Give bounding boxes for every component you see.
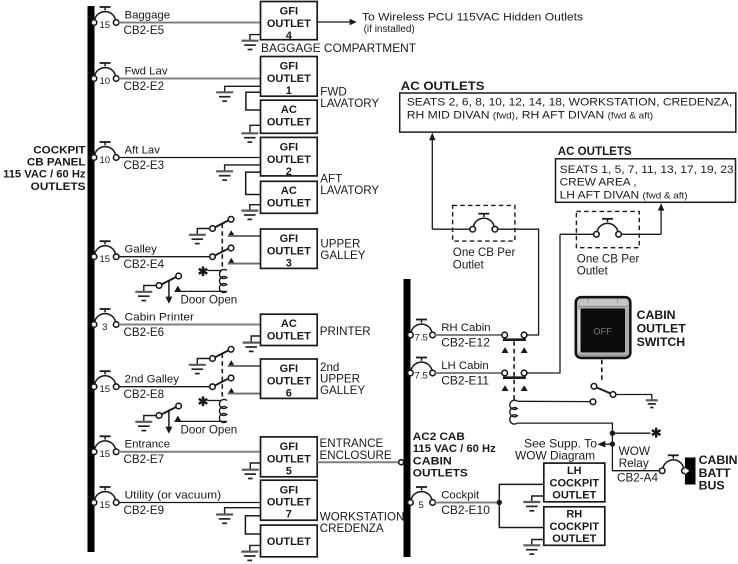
door actuator arrow xyxy=(168,281,170,298)
svg-text:CB2-E2: CB2-E2 xyxy=(124,80,165,93)
wire dashed CB box 1 to AC outlets seats box (arrow up) xyxy=(431,139,433,229)
wire GFI outlet 2 to AC outlet aft lav xyxy=(246,172,261,194)
svg-text:SWITCH: SWITCH xyxy=(637,335,686,349)
svg-text:15: 15 xyxy=(99,254,110,265)
svg-text:To Wireless PCU 115VAC Hidden: To Wireless PCU 115VAC Hidden Outlets xyxy=(362,12,583,24)
svg-text:OUTLET: OUTLET xyxy=(552,533,596,545)
svg-text:GFI: GFI xyxy=(280,484,298,496)
svg-text:COCKPIT: COCKPIT xyxy=(550,477,600,489)
svg-text:OUTLET: OUTLET xyxy=(552,489,596,501)
ground stub AC outlet printer xyxy=(251,336,260,342)
svg-text:15: 15 xyxy=(99,20,110,31)
wire GFI outlet 7 to outlet workstation xyxy=(245,516,260,534)
circuit breaker CB2-E11 (7.5A) xyxy=(411,362,432,371)
svg-text:GFI: GFI xyxy=(280,61,298,73)
ground AC outlet aft lav xyxy=(241,210,258,212)
ground stub LH cockpit outlet xyxy=(532,496,544,502)
wire coil to WOW relay node xyxy=(517,423,612,444)
door switch blade xyxy=(157,275,181,287)
ground stub AC outlet fwd lav xyxy=(250,125,261,133)
mechanical link dashed cabin relay xyxy=(513,341,515,400)
svg-text:OUTLET: OUTLET xyxy=(267,246,311,258)
wire CB2-E12 to relay contact RH xyxy=(435,334,502,336)
svg-text:LH Cabin: LH Cabin xyxy=(441,360,489,372)
ground stub GFI outlet 5 xyxy=(250,463,260,469)
node junction cockpit outlets xyxy=(497,500,502,505)
svg-text:ENCLOSURE: ENCLOSURE xyxy=(320,449,392,462)
svg-text:CB2-E12: CB2-E12 xyxy=(441,335,490,349)
svg-text:OUTLET: OUTLET xyxy=(267,154,311,166)
wire CB2-E5 to GFI outlet 4 xyxy=(119,22,261,24)
svg-text:GALLEY: GALLEY xyxy=(320,384,365,397)
wire junction to asterisk xyxy=(612,432,650,434)
relay coil cabin outlet relay xyxy=(510,400,518,424)
svg-text:OUTLETS: OUTLETS xyxy=(413,468,468,480)
circuit breaker CB2-E4 (15A) xyxy=(95,246,116,255)
arrow see supp to WOW diagram xyxy=(605,443,612,445)
svg-text:5: 5 xyxy=(286,465,292,477)
node junction WOW 2 xyxy=(610,441,615,446)
outlet box GFI OUTLET 4 xyxy=(261,2,318,40)
wire upper contact to GFI outlet 3 xyxy=(228,235,261,237)
wire dashed CB box 2 to AC outlets seats box 2 (arrow up) xyxy=(622,233,662,235)
wire CB2-E4 to galley relay contact xyxy=(119,256,210,258)
asterisk note coil xyxy=(202,396,205,406)
relay contact lower galley 6 xyxy=(210,376,234,388)
wire GFI outlet 4 to wireless PCU arrow xyxy=(317,21,350,23)
circuit breaker CB2-E12 (7.5A) xyxy=(411,324,432,333)
wire CB2-E8 to 2nd galley relay contact xyxy=(119,386,210,388)
node junction WOW 1 xyxy=(610,431,615,436)
asterisk note WOW xyxy=(655,428,657,438)
bus stub CABIN BATT BUS xyxy=(685,458,696,485)
wire GFI outlet 1 to AC outlet fwd lav xyxy=(246,92,261,110)
svg-text:CB2-E9: CB2-E9 xyxy=(124,504,165,517)
relay contact RH cabin xyxy=(503,338,526,341)
svg-text:OUTLET: OUTLET xyxy=(267,330,311,342)
bus bar COCKPIT CB PANEL 115VAC bus xyxy=(88,6,95,552)
contact terminal triangle lower xyxy=(228,258,235,264)
svg-text:GFI: GFI xyxy=(280,142,298,154)
ground AC outlet printer xyxy=(243,342,260,344)
svg-text:OFF: OFF xyxy=(593,327,612,337)
svg-text:OUTLET: OUTLET xyxy=(267,497,311,509)
door switch terminal triangle xyxy=(175,286,182,292)
svg-text:CB2-E10: CB2-E10 xyxy=(441,503,490,517)
svg-text:AC: AC xyxy=(281,185,297,197)
wire CB2-E9 to GFI outlet 7 xyxy=(119,502,261,504)
wire lower contact to GFI outlet 6 xyxy=(228,393,261,395)
svg-text:COCKPIT: COCKPIT xyxy=(33,144,86,156)
outlet box GFI OUTLET 2 xyxy=(261,137,318,176)
svg-text:Entrance: Entrance xyxy=(125,439,171,451)
outlet box AC OUTLET fwd lav xyxy=(261,100,318,133)
arrowhead to wireless PCU xyxy=(350,19,357,26)
dashed box one CB per outlet 2 xyxy=(576,211,639,247)
relay contact upper galley 6 xyxy=(210,348,234,360)
ground GFI outlet 4 xyxy=(242,40,259,42)
ground GFI outlet 2 xyxy=(216,170,233,172)
mechanical link dashed xyxy=(221,354,223,401)
svg-text:LH: LH xyxy=(567,465,582,477)
circuit breaker CB2-E2 (10A) xyxy=(95,68,116,77)
svg-text:CREW AREA ,: CREW AREA , xyxy=(560,177,637,189)
wire CB2-E11 to relay contact LH xyxy=(435,372,502,374)
svg-text:GFI: GFI xyxy=(280,6,298,18)
ground stub GFI outlet 1 xyxy=(225,86,261,92)
svg-text:GALLEY: GALLEY xyxy=(320,249,365,262)
outlet box OUTLET workstation xyxy=(261,525,318,557)
door switch blade xyxy=(157,405,181,417)
svg-text:CB2-E3: CB2-E3 xyxy=(124,159,165,172)
wire door switch to ground xyxy=(144,416,157,422)
outlet box GFI OUTLET 6 xyxy=(261,359,318,398)
ground door switch xyxy=(135,421,152,423)
svg-text:Outlet: Outlet xyxy=(453,258,485,271)
svg-text:10: 10 xyxy=(99,76,110,87)
svg-text:Cockpit: Cockpit xyxy=(441,489,480,501)
svg-text:One CB Per: One CB Per xyxy=(577,252,640,265)
svg-text:PRINTER: PRINTER xyxy=(320,325,371,338)
svg-text:Utility (or vacuum): Utility (or vacuum) xyxy=(125,489,222,501)
svg-text:15: 15 xyxy=(99,384,110,395)
svg-text:BAGGAGE COMPARTMENT: BAGGAGE COMPARTMENT xyxy=(261,42,416,55)
ground GFI outlet 1 xyxy=(216,91,233,93)
relay coil door relay xyxy=(219,399,227,422)
svg-text:CABIN: CABIN xyxy=(413,455,452,467)
ground stub RH cockpit outlet xyxy=(532,540,544,546)
circuit breaker one-CB-per-outlet 1 xyxy=(473,218,494,227)
svg-text:GFI: GFI xyxy=(280,233,298,245)
wire junction to LH and RH cockpit outlets xyxy=(499,484,544,527)
svg-text:7.5: 7.5 xyxy=(415,332,428,343)
ground upper contact xyxy=(189,234,206,236)
svg-text:OUTLETS: OUTLETS xyxy=(31,181,86,193)
ground AC outlet fwd lav xyxy=(241,132,258,134)
svg-text:OUTLET: OUTLET xyxy=(267,536,311,548)
svg-text:Door Open: Door Open xyxy=(181,293,238,306)
ground stub AC outlet aft lav xyxy=(250,205,261,211)
svg-text:CB2-E11: CB2-E11 xyxy=(441,373,489,387)
circuit breaker CB2-E8 (15A) xyxy=(95,376,116,385)
ground upper contact xyxy=(189,364,206,366)
ground stub GFI outlet 4 xyxy=(250,35,261,41)
wire GFI outlet 5 to AC2 CAB bus xyxy=(317,461,399,463)
wire coil to switch contact xyxy=(517,400,590,402)
bus bar AC2 CAB 115VAC cabin outlets xyxy=(404,279,411,557)
svg-text:One CB Per: One CB Per xyxy=(453,246,516,259)
svg-text:Fwd Lav: Fwd Lav xyxy=(125,65,168,77)
wire upper contact to ground xyxy=(197,229,210,235)
door switch terminal triangle xyxy=(175,416,182,422)
svg-text:7: 7 xyxy=(286,509,292,521)
outlet box RH COCKPIT OUTLET xyxy=(544,507,605,546)
circuit breaker CB2-E5 (15A) xyxy=(95,12,116,21)
outlet box GFI OUTLET 7 xyxy=(261,480,318,520)
svg-text:15: 15 xyxy=(99,449,110,460)
svg-text:OUTLET: OUTLET xyxy=(267,116,311,128)
svg-text:Galley: Galley xyxy=(125,244,158,256)
circuit breaker CB2-E9 (15A) xyxy=(95,492,116,501)
wire CB2-E6 to AC outlet printer xyxy=(119,324,261,326)
node terminal at AC2 CAB bus xyxy=(399,460,404,465)
svg-text:GFI: GFI xyxy=(280,441,298,453)
relay contact LH cabin xyxy=(503,376,526,379)
wire lower contact to GFI outlet 3 xyxy=(228,263,261,265)
wire door switch to ground xyxy=(144,286,157,292)
svg-text:115 VAC / 60 Hz: 115 VAC / 60 Hz xyxy=(413,443,496,455)
svg-text:AC: AC xyxy=(281,318,297,330)
wire into dashed CB box 1 xyxy=(432,228,470,230)
relay contact upper galley 3 xyxy=(210,218,234,230)
svg-text:CREDENZA: CREDENZA xyxy=(320,522,384,535)
circuit breaker CB2-E7 (15A) xyxy=(95,441,116,450)
outlet box LH COCKPIT OUTLET xyxy=(544,463,605,502)
door actuator arrow xyxy=(168,411,170,428)
ground GFI outlet 5 xyxy=(242,469,259,471)
circuit breaker CB2-E10 (5A) xyxy=(411,492,432,501)
svg-text:(if installed): (if installed) xyxy=(364,24,415,35)
ground stub outlet workstation xyxy=(250,545,261,551)
relay coil door relay xyxy=(219,269,227,292)
svg-text:OUTLET: OUTLET xyxy=(267,453,311,465)
svg-text:CABIN: CABIN xyxy=(637,308,676,322)
outlet box GFI OUTLET 5 xyxy=(261,437,318,477)
svg-text:10: 10 xyxy=(99,155,110,166)
wire door switch to coil xyxy=(175,420,227,422)
svg-text:LAVATORY: LAVATORY xyxy=(320,184,379,197)
svg-text:CB2-A4: CB2-A4 xyxy=(617,471,658,485)
svg-text:CB2-E5: CB2-E5 xyxy=(124,24,165,37)
contact terminal triangle upper xyxy=(228,360,235,366)
svg-text:3: 3 xyxy=(102,322,107,333)
svg-text:CB2-E7: CB2-E7 xyxy=(124,453,165,466)
svg-text:Cabin Printer: Cabin Printer xyxy=(125,311,195,323)
svg-text:5: 5 xyxy=(419,500,424,511)
svg-text:OUTLET: OUTLET xyxy=(267,73,311,85)
wire door switch to coil xyxy=(175,290,227,292)
svg-text:Outlet: Outlet xyxy=(577,265,609,278)
svg-text:WOW Diagram: WOW Diagram xyxy=(515,449,595,463)
svg-text:RH: RH xyxy=(566,509,582,521)
svg-text:RH MID DIVAN (fwd), RH AFT DIV: RH MID DIVAN (fwd), RH AFT DIVAN (fwd & … xyxy=(407,110,653,122)
ground LH cockpit outlet xyxy=(523,501,540,503)
svg-text:4: 4 xyxy=(286,30,293,42)
switch CABIN OUTLET SWITCH body xyxy=(575,296,632,359)
svg-text:COCKPIT: COCKPIT xyxy=(550,521,600,533)
svg-text:SEATS 2, 6, 8, 10, 12, 14, 18,: SEATS 2, 6, 8, 10, 12, 14, 18, WORKSTATI… xyxy=(407,97,732,109)
svg-text:AC2 CAB: AC2 CAB xyxy=(413,431,465,443)
ground stub GFI outlet 2 xyxy=(225,165,261,171)
wire upper contact to ground xyxy=(197,359,210,365)
svg-text:Relay: Relay xyxy=(619,456,649,470)
wire into dashed CB box 2 from LH cabin feed xyxy=(560,233,594,235)
relay contact lower galley 3 xyxy=(210,246,234,258)
svg-text:115 VAC / 60 Hz: 115 VAC / 60 Hz xyxy=(3,169,85,181)
wire LH contact to dashed CB box 2 xyxy=(527,234,560,373)
svg-text:15: 15 xyxy=(99,500,110,511)
svg-text:GFI: GFI xyxy=(280,363,298,375)
dashed box one CB per outlet 1 xyxy=(453,205,515,241)
dashed link switch to contact xyxy=(601,360,603,382)
svg-text:AC OUTLETS: AC OUTLETS xyxy=(401,81,485,93)
svg-text:Door Open: Door Open xyxy=(181,423,238,436)
outlet box AC OUTLET printer xyxy=(261,314,318,345)
ground outlet workstation xyxy=(241,550,258,552)
wire junction to CB2-A4 xyxy=(612,444,659,471)
box AC OUTLETS seats 2-18 xyxy=(400,93,736,132)
wire CB2-E10 to junction xyxy=(435,502,497,504)
svg-text:2nd Galley: 2nd Galley xyxy=(125,374,180,386)
svg-text:RH Cabin: RH Cabin xyxy=(441,322,490,334)
contact terminal triangle lower xyxy=(228,388,235,394)
svg-text:LH AFT DIVAN (fwd & aft): LH AFT DIVAN (fwd & aft) xyxy=(560,189,688,201)
ground GFI outlet 7 xyxy=(216,513,233,515)
outlet box AC OUTLET aft lav xyxy=(261,181,318,213)
wire asterisk to coil xyxy=(207,400,221,402)
svg-text:CB2-E4: CB2-E4 xyxy=(124,258,165,271)
svg-text:CB PANEL: CB PANEL xyxy=(27,157,86,169)
svg-text:AC: AC xyxy=(281,104,297,116)
asterisk note coil xyxy=(202,266,205,276)
mechanical link dashed xyxy=(221,224,223,271)
circuit breaker CB2-A4 WOW relay xyxy=(663,460,684,469)
wire upper contact to GFI outlet 6 xyxy=(228,365,261,367)
svg-text:LAVATORY: LAVATORY xyxy=(320,97,379,110)
svg-text:CB2-E8: CB2-E8 xyxy=(124,388,165,401)
svg-text:7.5: 7.5 xyxy=(415,370,428,381)
ground stub GFI outlet 7 xyxy=(225,508,261,515)
svg-text:OUTLET: OUTLET xyxy=(637,322,687,336)
outlet box GFI OUTLET 1 xyxy=(261,57,318,97)
switch contact cabin outlet xyxy=(591,385,611,394)
svg-text:OUTLET: OUTLET xyxy=(267,18,311,30)
svg-text:3: 3 xyxy=(286,258,292,270)
wire switch contact to ground xyxy=(616,395,652,401)
svg-text:Aft Lav: Aft Lav xyxy=(125,144,161,156)
circuit breaker one-CB-per-outlet 2 xyxy=(597,223,618,232)
ground door switch xyxy=(135,291,152,293)
wire CB2-E2 to GFI outlet 1 xyxy=(119,78,261,80)
wire dashed CB box 1 to RH cabin feed xyxy=(498,229,539,335)
circuit breaker CB2-E6 (3A) xyxy=(95,314,116,323)
ground switch contact xyxy=(646,399,658,401)
circuit breaker CB2-E3 (10A) xyxy=(95,147,116,156)
wire CB2-E7 to GFI outlet 5 xyxy=(119,451,261,453)
wire CB2-E3 to GFI outlet 2 xyxy=(119,157,261,159)
svg-text:CB2-E6: CB2-E6 xyxy=(124,326,165,339)
svg-text:BUS: BUS xyxy=(699,478,725,492)
svg-text:OUTLET: OUTLET xyxy=(267,197,311,209)
svg-text:SEATS 1, 5, 7, 11, 13, 17, 19,: SEATS 1, 5, 7, 11, 13, 17, 19, 23 xyxy=(560,164,734,176)
svg-text:AC OUTLETS: AC OUTLETS xyxy=(558,146,632,158)
ground RH cockpit outlet xyxy=(523,544,540,546)
svg-text:1: 1 xyxy=(286,85,292,97)
svg-text:2: 2 xyxy=(286,166,292,178)
svg-text:6: 6 xyxy=(286,388,292,400)
contact terminal triangle upper xyxy=(228,230,235,236)
wire asterisk to coil xyxy=(207,270,221,272)
svg-text:Baggage: Baggage xyxy=(125,9,171,21)
box AC OUTLETS seats 1-23 xyxy=(556,159,736,203)
svg-text:OUTLET: OUTLET xyxy=(267,376,311,388)
outlet box GFI OUTLET 3 xyxy=(261,229,318,268)
